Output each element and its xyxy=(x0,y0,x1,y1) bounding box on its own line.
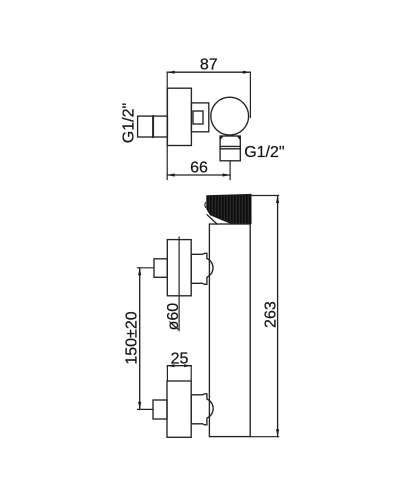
dia 60 leader line xyxy=(178,237,180,331)
extension line right of 66 (outlet centre) xyxy=(229,161,231,180)
upper connection nut with ball joint xyxy=(191,253,213,284)
extension line right of 87 xyxy=(249,72,251,117)
wall plate (top view) xyxy=(167,88,191,145)
extension line left (wall plate edge, runs to 66 dim) xyxy=(166,72,168,179)
dimension 25 line xyxy=(167,364,191,367)
lower connection nut with ball joint xyxy=(191,394,213,425)
lower inlet pipe (front view) xyxy=(153,400,167,419)
cartridge window (top view) xyxy=(193,111,203,124)
svg-text:ø60: ø60 xyxy=(165,303,182,331)
dimension 150+-20 line xyxy=(138,268,141,410)
svg-text:150±20: 150±20 xyxy=(123,311,140,364)
svg-text:25: 25 xyxy=(171,351,189,368)
svg-text:263: 263 xyxy=(263,301,280,328)
upper wall plate (front view) xyxy=(167,240,191,296)
extension line right of 25 xyxy=(190,366,192,381)
svg-text:G1/2": G1/2" xyxy=(244,144,284,161)
control knob circle (top view) xyxy=(211,97,249,135)
extension line left of 25 xyxy=(166,366,168,381)
outlet connector (top view) xyxy=(220,136,240,161)
dimension 263 line xyxy=(276,196,279,437)
extension line top of 263 xyxy=(251,195,279,197)
cartridge housing (top view) xyxy=(191,103,208,132)
knurled knob (front view) xyxy=(205,194,251,224)
leader to lower pipe centre xyxy=(138,408,154,410)
svg-text:66: 66 xyxy=(190,160,208,177)
extension line bottom of 263 xyxy=(250,436,278,438)
leader to upper pipe centre xyxy=(138,267,155,269)
knob lower-left facet outline xyxy=(207,215,217,224)
dimension 66 line xyxy=(167,173,230,176)
upper inlet pipe (front view) xyxy=(154,259,167,278)
svg-text:G1/2": G1/2" xyxy=(120,103,137,143)
faucet body (front view) xyxy=(209,224,250,437)
svg-text:87: 87 xyxy=(200,57,218,74)
lower wall plate (front view) xyxy=(167,381,191,437)
dimension 87 line xyxy=(167,71,250,74)
inlet pipe G1/2 (top view) xyxy=(138,116,168,137)
